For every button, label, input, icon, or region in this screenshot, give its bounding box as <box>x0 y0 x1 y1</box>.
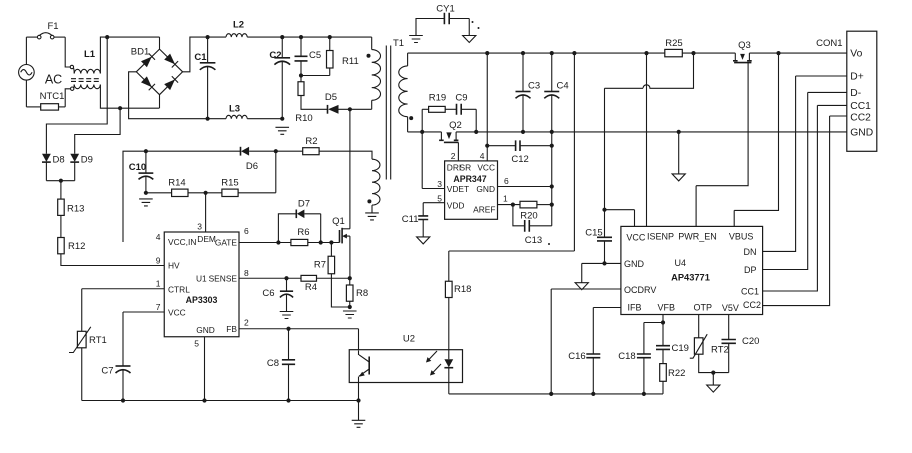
capacitor C4 <box>544 53 568 132</box>
resistor R25 <box>665 38 683 57</box>
node rail/D8 <box>105 35 109 39</box>
wire D9 feed <box>75 108 120 154</box>
diode D7 <box>278 198 320 242</box>
thermistor RT2 <box>690 315 729 373</box>
wire D- to DP <box>763 92 847 269</box>
capacitor C2 <box>269 35 290 119</box>
svg-text:RT1: RT1 <box>89 335 107 346</box>
svg-text:SENSE: SENSE <box>209 273 238 283</box>
node Q1 drain <box>348 107 352 111</box>
resistor R2 <box>303 136 372 155</box>
svg-text:U2: U2 <box>403 334 415 345</box>
svg-text:L1: L1 <box>84 49 96 60</box>
svg-text:C15: C15 <box>585 228 602 239</box>
transformer T1 aux winding <box>367 152 380 213</box>
svg-text:9: 9 <box>156 256 161 266</box>
wire L1 to rail <box>100 37 159 73</box>
svg-text:T1: T1 <box>393 38 404 49</box>
resistor R19 <box>422 93 456 113</box>
wire C4/GND column <box>551 132 553 226</box>
svg-text:R7: R7 <box>314 259 326 270</box>
wire Q1 drain <box>349 109 351 229</box>
svg-text:GATE: GATE <box>215 237 238 247</box>
wire R19 left leg <box>421 109 423 132</box>
capacitor C6 <box>262 278 293 311</box>
svg-text:R18: R18 <box>454 284 471 295</box>
resistor R22 <box>660 349 686 394</box>
svg-text:CY1: CY1 <box>436 4 454 15</box>
svg-text:DN: DN <box>744 247 757 257</box>
wire Q2 gate stub <box>457 142 459 161</box>
wire ISENP column <box>646 53 648 226</box>
svg-text:R10: R10 <box>295 113 312 124</box>
IC U4 AP43771 <box>621 226 763 314</box>
svg-text:R11: R11 <box>342 56 359 67</box>
svg-text:VBUS: VBUS <box>729 232 754 242</box>
wire U4 GND pin <box>582 263 621 282</box>
svg-text:SR: SR <box>460 162 472 172</box>
node RT2/C20 gnd <box>711 371 715 375</box>
svg-text:VCC: VCC <box>626 233 646 243</box>
svg-text:CC2: CC2 <box>850 112 871 123</box>
svg-text:L3: L3 <box>229 103 240 114</box>
transformer T1 secondary <box>399 53 413 132</box>
capacitor C1 <box>194 37 215 119</box>
thermistor RT1 <box>69 289 164 401</box>
svg-text:HV: HV <box>168 261 180 271</box>
diode D6 <box>241 147 303 172</box>
wire CC2 net <box>763 116 847 306</box>
resistor R6 <box>291 227 310 246</box>
transistor Q1 <box>332 216 350 278</box>
capacitor C8 <box>267 329 295 401</box>
capacitor C5 <box>295 35 322 76</box>
svg-text:R15: R15 <box>221 178 238 189</box>
capacitor C3 <box>516 53 541 132</box>
svg-text:8: 8 <box>244 268 249 278</box>
svg-text:GND: GND <box>850 127 873 138</box>
svg-text:6: 6 <box>244 226 249 236</box>
svg-text:AP3303: AP3303 <box>186 295 218 305</box>
svg-text:AREF: AREF <box>473 204 495 214</box>
transformer T1 primary <box>367 37 405 109</box>
ground C10 <box>139 199 153 206</box>
wire OCDRV <box>551 289 621 394</box>
svg-text:NTC1: NTC1 <box>40 91 65 102</box>
svg-text:R12: R12 <box>68 241 85 252</box>
wire U1 GND stub <box>204 337 206 401</box>
wire DEM stub <box>205 193 207 232</box>
svg-text:L2: L2 <box>233 20 244 31</box>
NTC1 <box>26 91 65 110</box>
svg-text:C5: C5 <box>309 50 321 61</box>
ground <box>275 127 289 134</box>
svg-text:C20: C20 <box>742 336 759 347</box>
svg-text:C6: C6 <box>262 288 274 299</box>
wire loop right bottom to L1 <box>65 89 70 107</box>
svg-text:D5: D5 <box>325 92 337 103</box>
inductor L2 <box>226 20 247 38</box>
transistor Q3 <box>733 40 752 62</box>
ground CY1 <box>409 36 423 43</box>
wire VBUS pin <box>734 53 778 226</box>
svg-text:AC: AC <box>45 73 62 87</box>
node DEM pin tap <box>204 191 208 195</box>
svg-text:R13: R13 <box>67 204 84 215</box>
svg-text:D8: D8 <box>53 155 65 166</box>
ground C6 <box>280 312 294 319</box>
svg-text:D+: D+ <box>850 72 863 83</box>
svg-text:ISENP: ISENP <box>647 232 674 242</box>
svg-text:4: 4 <box>480 151 485 161</box>
svg-text:R4: R4 <box>305 282 317 293</box>
capacitor C7 <box>101 312 164 401</box>
fuse F1 <box>26 21 65 39</box>
svg-text:OTP: OTP <box>694 303 713 313</box>
svg-text:V5V: V5V <box>722 303 739 313</box>
svg-text:CC2: CC2 <box>743 300 761 310</box>
svg-text:VFB: VFB <box>658 303 676 313</box>
node C1 bottom <box>206 117 210 121</box>
capacitor C19 <box>656 323 689 354</box>
PE CY1 <box>463 36 476 43</box>
svg-text:R20: R20 <box>520 210 537 221</box>
wire VFB <box>662 315 664 323</box>
svg-text:D6: D6 <box>246 161 258 172</box>
wire IFB <box>593 308 621 355</box>
node R8 gnd <box>348 305 352 309</box>
resistor R14 <box>146 178 222 197</box>
transistor Q2 <box>439 120 462 142</box>
svg-text:GND: GND <box>196 325 215 335</box>
wire D+ to DN <box>763 76 847 251</box>
svg-text:R2: R2 <box>305 136 317 147</box>
svg-text:U4: U4 <box>675 258 687 268</box>
diode D8 <box>42 154 65 181</box>
svg-text:C8: C8 <box>267 358 279 369</box>
opto light arrows <box>426 351 441 376</box>
svg-text:VCC: VCC <box>168 307 186 317</box>
wire AC loop left <box>25 37 27 107</box>
svg-text:D-: D- <box>850 88 861 99</box>
svg-text:GND: GND <box>624 259 645 269</box>
AC source <box>19 65 63 87</box>
wire L1 bottom to BD1 <box>100 85 159 109</box>
resistor R11 <box>327 35 359 76</box>
resistor R4 <box>301 275 317 293</box>
svg-text:CC1: CC1 <box>741 286 759 296</box>
svg-text:C19: C19 <box>672 343 689 354</box>
capacitor C15 <box>585 210 612 264</box>
svg-text:DP: DP <box>744 265 757 275</box>
svg-text:APR347: APR347 <box>453 174 486 184</box>
node DEM divider top <box>274 149 278 153</box>
svg-text:RT2: RT2 <box>711 344 729 355</box>
svg-text:C1: C1 <box>194 52 207 63</box>
resistor R7 <box>314 243 350 308</box>
capacitor C20 <box>722 315 760 373</box>
resistor R12 <box>58 238 165 266</box>
resistor R18 <box>445 251 471 351</box>
wire BD1 top stub <box>159 37 161 49</box>
node C10 top <box>144 149 148 153</box>
op IC U1 AP3303 <box>156 222 249 349</box>
svg-text:F1: F1 <box>47 21 58 32</box>
svg-text:C10: C10 <box>129 162 146 173</box>
svg-text:2: 2 <box>244 318 249 328</box>
connector CON1 <box>816 31 877 151</box>
capacitor CY1 <box>416 4 480 36</box>
capacitor C12 <box>487 140 552 164</box>
svg-text:FB: FB <box>226 324 237 334</box>
svg-text:C11: C11 <box>402 214 419 225</box>
wire primary gnd bus <box>82 400 359 402</box>
wire loop right top to L1 <box>65 37 70 67</box>
wire CC1 net <box>763 105 847 291</box>
choke L1 <box>70 49 101 90</box>
wire GATE line <box>239 242 340 244</box>
svg-text:5: 5 <box>194 339 199 349</box>
wire U3 AREF pin1 <box>498 204 521 206</box>
svg-text:7: 7 <box>156 302 161 312</box>
svg-text:GND: GND <box>476 184 495 194</box>
svg-text:D7: D7 <box>298 198 310 209</box>
wire output top rail <box>408 52 847 54</box>
svg-text:VDD: VDD <box>447 201 465 211</box>
wire BD1 left to DC- rail <box>129 72 226 119</box>
svg-text:1: 1 <box>503 194 508 204</box>
wire secondary fb bus <box>449 393 663 395</box>
svg-text:DEM: DEM <box>197 234 216 244</box>
svg-text:2: 2 <box>451 151 456 161</box>
svg-text:VCC: VCC <box>477 162 495 172</box>
svg-text:R25: R25 <box>665 38 682 49</box>
resistor R10 <box>295 76 327 124</box>
svg-text:IFB: IFB <box>628 303 642 313</box>
inductor L3 <box>226 103 247 118</box>
svg-text:R22: R22 <box>668 368 685 379</box>
svg-text:C3: C3 <box>528 81 540 92</box>
svg-text:AP43771: AP43771 <box>671 273 710 283</box>
wire secondary GND rail <box>408 131 847 133</box>
svg-text:C18: C18 <box>618 351 635 362</box>
optocoupler U2 <box>349 334 462 383</box>
wire U3 GND pin6 <box>498 186 552 188</box>
wire SENSE line <box>239 277 350 279</box>
wire U3 VCC pin4 <box>486 53 488 161</box>
opto transistor <box>359 351 370 401</box>
resistor R8 <box>346 278 368 307</box>
wire DC+ rail to T1 <box>247 36 371 38</box>
svg-text:1: 1 <box>156 279 161 289</box>
svg-text:R14: R14 <box>168 178 185 189</box>
svg-text:Q3: Q3 <box>738 40 751 51</box>
resistor R20 <box>520 201 552 221</box>
svg-text:PWR_EN: PWR_EN <box>678 232 717 242</box>
svg-text:6: 6 <box>504 176 509 186</box>
svg-text:3: 3 <box>197 222 202 232</box>
PE RT2 <box>712 373 714 386</box>
PE U4 GND <box>575 283 588 290</box>
svg-text:C9: C9 <box>455 93 467 104</box>
wire VBUS net after R25 <box>605 53 694 210</box>
PE secondary gnd rail <box>678 132 680 174</box>
svg-text:R19: R19 <box>429 93 446 104</box>
wire BD1 right to DC+ rail <box>183 37 226 72</box>
svg-text:3: 3 <box>437 179 442 189</box>
svg-text:CTRL: CTRL <box>168 284 190 294</box>
PE C11 <box>417 237 430 244</box>
opto LED <box>444 351 453 394</box>
svg-text:VDET: VDET <box>447 184 469 194</box>
svg-text:D9: D9 <box>81 155 93 166</box>
capacitor C18 <box>618 323 663 394</box>
node snubber <box>299 73 303 77</box>
capacitor C11 <box>402 214 428 237</box>
wire U4 VCC jog <box>605 210 635 227</box>
svg-text:Vo: Vo <box>850 49 862 60</box>
wire BD1 bottom stub <box>159 95 161 109</box>
svg-text:CC1: CC1 <box>850 101 871 112</box>
svg-text:4: 4 <box>156 232 161 242</box>
wire Vout sense <box>449 53 575 251</box>
IC U3 APR347 <box>437 151 509 219</box>
T1 core <box>386 46 390 180</box>
svg-text:OCDRV: OCDRV <box>624 285 656 295</box>
ground bus <box>358 401 360 421</box>
svg-text:C4: C4 <box>557 81 569 92</box>
capacitor C9 <box>455 93 476 132</box>
wire FB line <box>239 329 359 354</box>
node C10 gnd <box>144 191 148 195</box>
wire snubber node <box>301 75 330 77</box>
resistor R15 <box>221 151 276 196</box>
wire U3 VDET pin3 <box>422 132 444 189</box>
svg-text:CON1: CON1 <box>816 38 842 49</box>
svg-text:U1: U1 <box>196 273 207 283</box>
capacitor C16 <box>568 351 600 394</box>
svg-text:C7: C7 <box>101 365 113 376</box>
svg-text:C16: C16 <box>568 351 585 362</box>
wire aux rect net <box>123 151 241 242</box>
diode D5 <box>325 92 372 114</box>
wire L3 to C2 <box>247 118 282 120</box>
wire Q3 gate to PWR_EN <box>696 63 748 227</box>
node D8/D9 join <box>46 180 74 182</box>
svg-text:C13: C13 <box>525 235 542 246</box>
node C1 top <box>206 35 210 39</box>
ground R8 <box>343 311 357 318</box>
diode D9 <box>70 154 93 181</box>
capacitor C13 <box>513 205 552 246</box>
svg-text:R6: R6 <box>297 227 309 238</box>
svg-text:C12: C12 <box>511 154 528 165</box>
svg-text:Q2: Q2 <box>449 120 462 131</box>
svg-text:VCC,IN: VCC,IN <box>168 237 196 247</box>
node D9 tap <box>118 106 122 110</box>
resistor R13 <box>58 181 85 238</box>
bridge BD1 <box>131 47 183 95</box>
wire D8 feed <box>46 37 107 154</box>
ground aux <box>365 213 379 220</box>
svg-text:Q1: Q1 <box>332 216 345 227</box>
svg-text:R8: R8 <box>356 288 368 299</box>
wire U3 VDD pin5 <box>423 203 444 216</box>
svg-text:C2: C2 <box>269 50 281 61</box>
svg-text:5: 5 <box>437 194 442 204</box>
capacitor C10 <box>129 151 154 193</box>
svg-text:BD1: BD1 <box>131 47 149 58</box>
